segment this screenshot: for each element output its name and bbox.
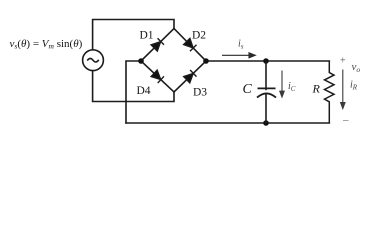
node capacitor bottom [263, 120, 269, 126]
svg-text:D3: D3 [193, 87, 207, 99]
node left vertex [138, 58, 144, 64]
wire bridge arm D3 [174, 61, 206, 92]
diode D2 [183, 38, 196, 51]
wire bridge arm D1 [141, 29, 174, 62]
wire left vertex stub to bottom rail [126, 61, 141, 123]
wire bridge arm D4 [141, 61, 174, 92]
svg-text:C: C [243, 82, 253, 97]
svg-text:D4: D4 [137, 85, 151, 97]
svg-text:vs(θ) = Vm sin(θ): vs(θ) = Vm sin(θ) [10, 38, 83, 51]
arrow i_R [341, 70, 345, 109]
diode D1 [151, 38, 164, 51]
diode D3 [183, 70, 196, 83]
svg-text:–: – [342, 114, 349, 126]
wire top from source to bridge top [93, 20, 174, 50]
svg-text:D1: D1 [140, 30, 154, 42]
capacitor C [257, 61, 276, 123]
wire top rail right vertex to R [206, 60, 329, 62]
wire bridge arm D2 [174, 29, 206, 62]
svg-text:D2: D2 [192, 30, 206, 42]
wire bottom rail [126, 122, 329, 124]
wire bottom from source to bridge bottom [93, 71, 174, 102]
svg-text:R: R [312, 82, 321, 96]
resistor R [325, 61, 335, 123]
node capacitor top [263, 58, 269, 64]
svg-text:+: + [340, 56, 346, 67]
diode D4 [151, 70, 164, 83]
ac source VS [83, 50, 104, 71]
node right vertex [203, 58, 209, 64]
arrow i_C [280, 71, 284, 98]
arrow i_s [222, 53, 255, 58]
